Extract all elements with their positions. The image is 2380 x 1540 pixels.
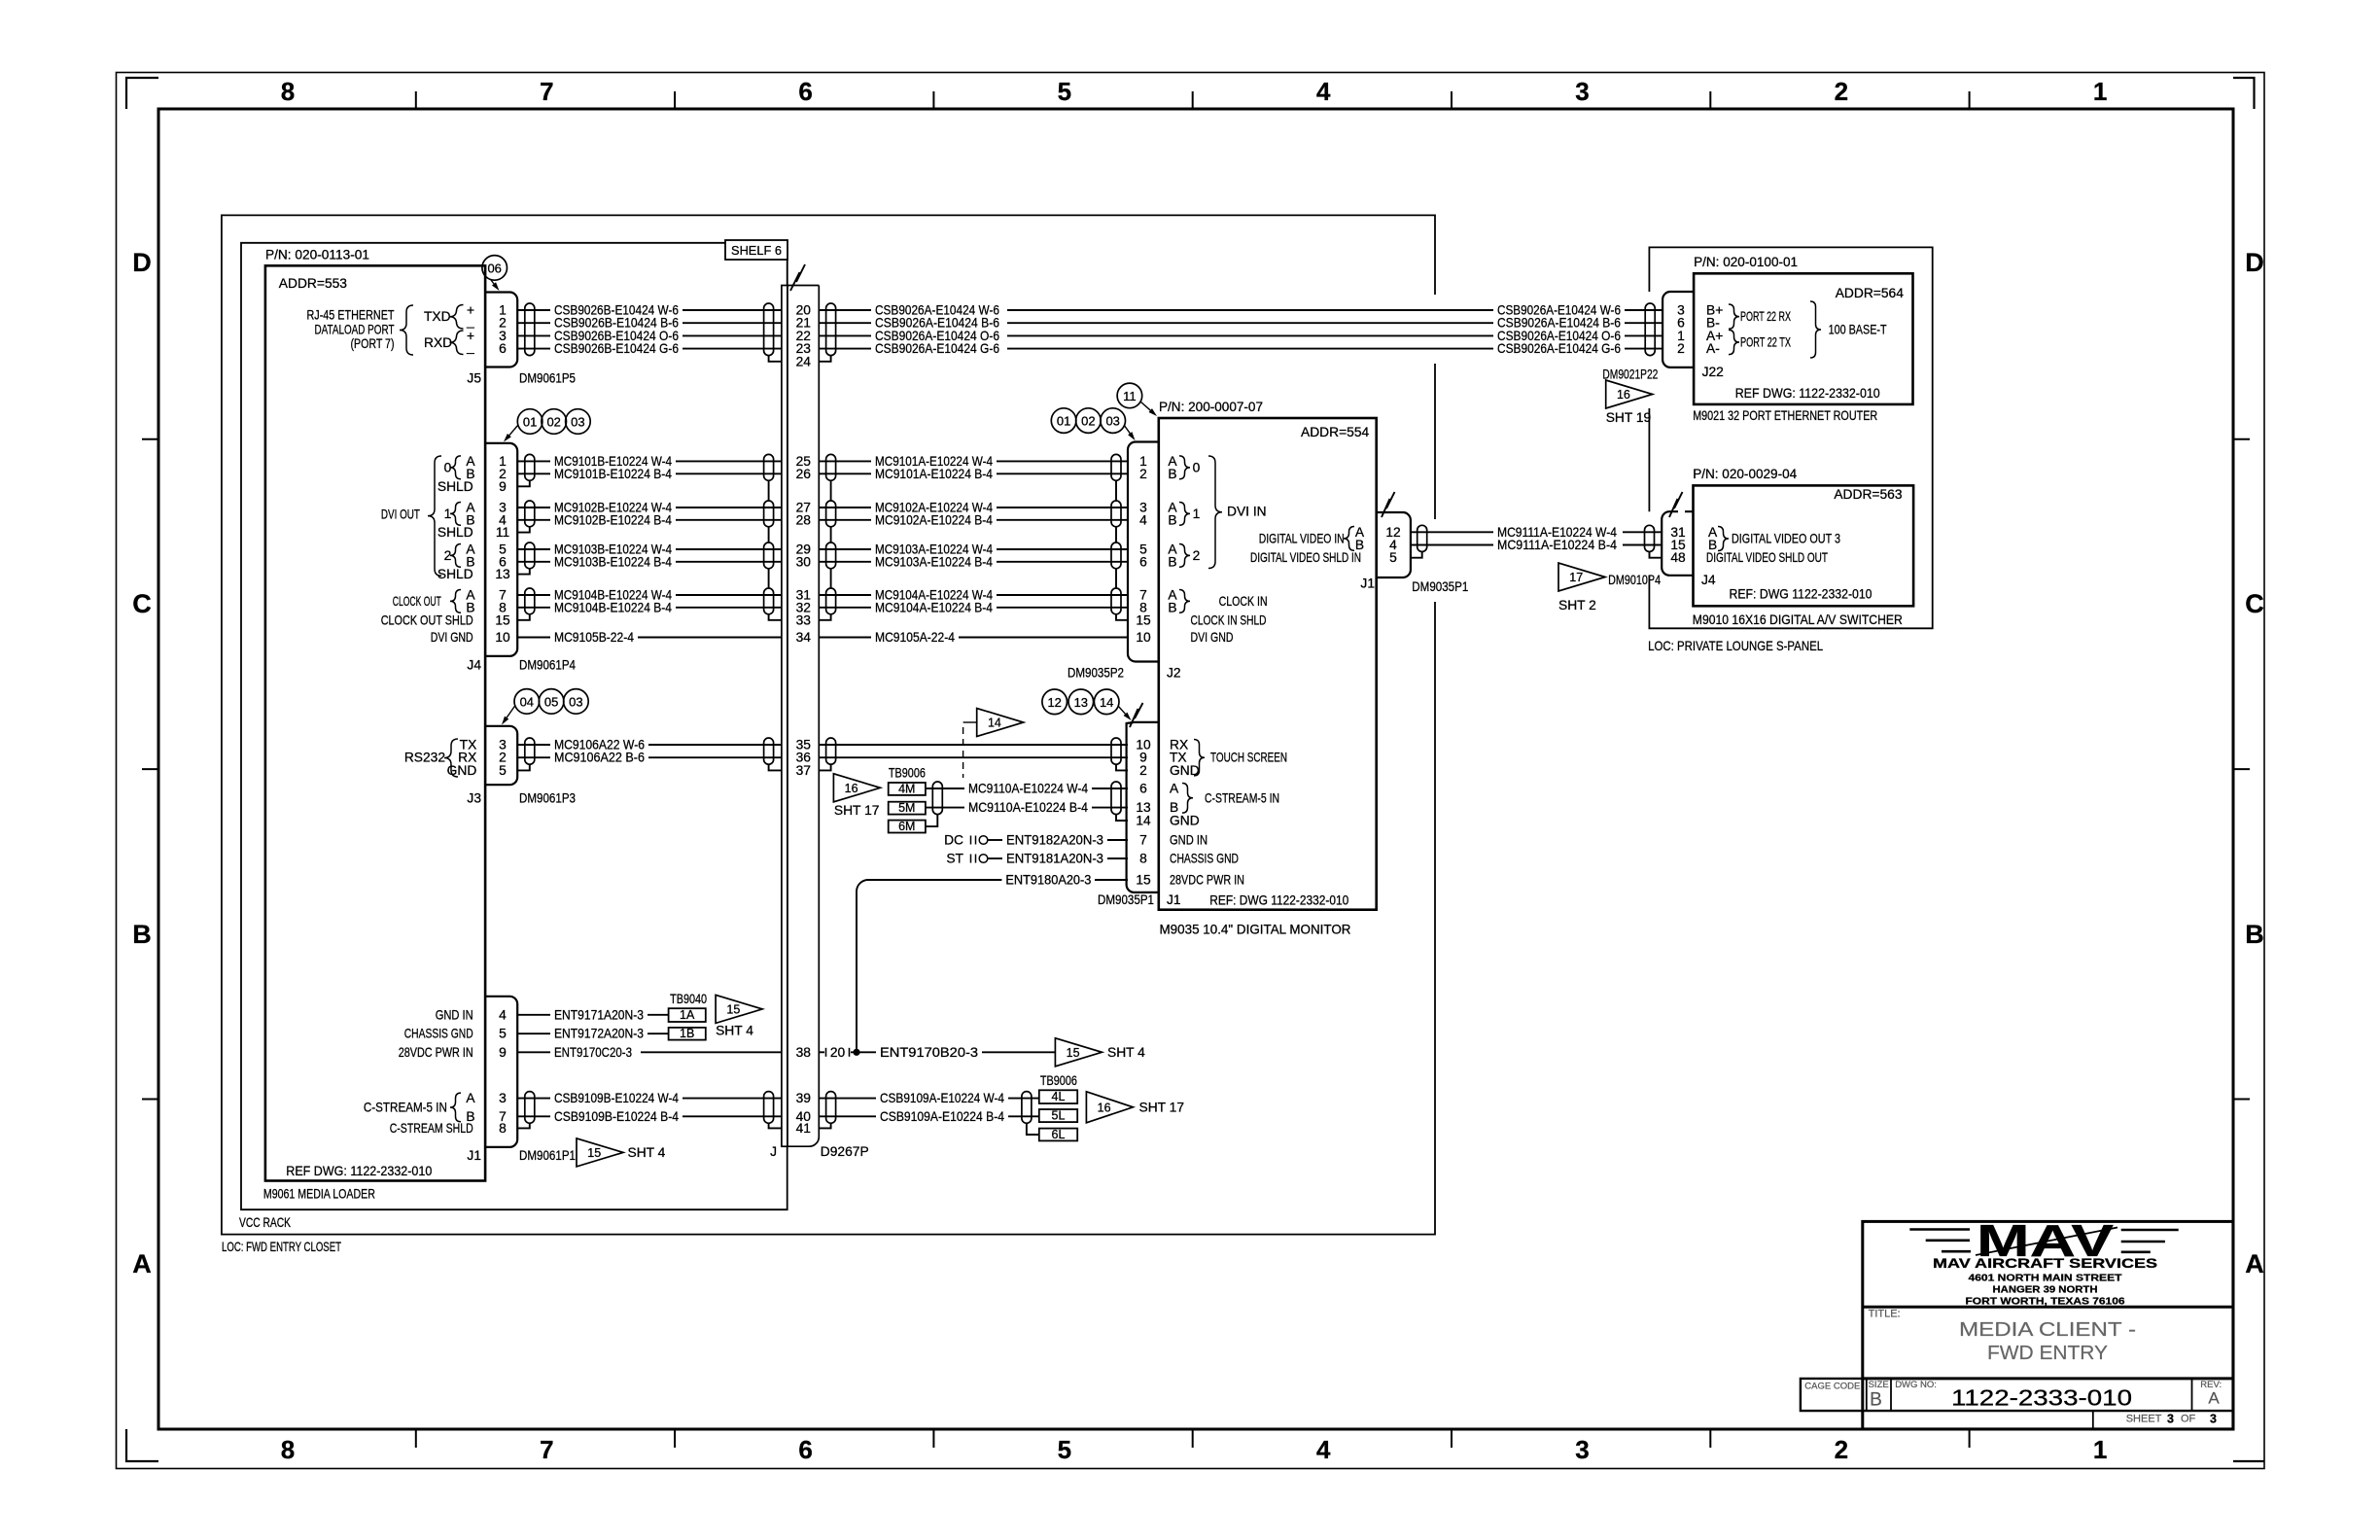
- wire MC9103B-E10224 B-4: [517, 561, 550, 563]
- svg-text:MC9101B-E10224 B-4: MC9101B-E10224 B-4: [554, 467, 672, 481]
- frame corner mark top-left: [126, 78, 158, 109]
- outer box LOC PRIVATE LOUNGE S-PANEL: [1649, 247, 1932, 628]
- svg-text:RXD: RXD: [424, 335, 452, 350]
- shield hook CSB9109A right side: [819, 1123, 830, 1128]
- svg-text:B: B: [1168, 512, 1176, 527]
- svg-text:17: 17: [1569, 571, 1583, 584]
- twisted-pair symbol at monitor: [1111, 542, 1121, 569]
- svg-text:7: 7: [1139, 833, 1147, 848]
- svg-text:4601 NORTH MAIN STREET: 4601 NORTH MAIN STREET: [1969, 1273, 2122, 1283]
- router M9021 box: [1694, 273, 1912, 404]
- svg-text:REF: DWG 1122-2332-010: REF: DWG 1122-2332-010: [1209, 893, 1348, 908]
- svg-text:15: 15: [726, 1002, 740, 1016]
- svg-text:SHT 17: SHT 17: [834, 803, 880, 818]
- svg-text:5: 5: [1389, 550, 1397, 565]
- svg-text:CAGE CODE:: CAGE CODE:: [1804, 1381, 1863, 1391]
- svg-text:LOC: FWD ENTRY CLOSET: LOC: FWD ENTRY CLOSET: [222, 1240, 341, 1254]
- title block cage code row box: [1801, 1379, 2233, 1411]
- connector J22 bump on router: [1662, 292, 1694, 367]
- svg-text:DVI GND: DVI GND: [431, 630, 473, 645]
- svg-text:15: 15: [587, 1146, 601, 1160]
- svg-text:3: 3: [1575, 77, 1589, 106]
- svg-text:MC9110A-E10224 B-4: MC9110A-E10224 B-4: [968, 800, 1088, 815]
- svg-text:ENT9170B20-3: ENT9170B20-3: [880, 1045, 978, 1060]
- svg-text:6: 6: [1139, 554, 1147, 569]
- svg-text:ENT9182A20N-3: ENT9182A20N-3: [1006, 833, 1103, 848]
- svg-text:MC9105B-22-4: MC9105B-22-4: [554, 630, 634, 645]
- connector J3 bump on M9061: [485, 726, 517, 785]
- wire MC9104B-E10224 W-4: [517, 594, 550, 596]
- frame zone ticks top: [415, 91, 417, 109]
- svg-text:MC9103A-E10224 B-4: MC9103A-E10224 B-4: [875, 554, 993, 569]
- svg-text:MC9105A-22-4: MC9105A-22-4: [875, 630, 955, 645]
- media loader M9061 box: [265, 265, 485, 1180]
- svg-text:8: 8: [281, 77, 295, 106]
- svg-text:SHLD: SHLD: [437, 479, 473, 494]
- leader balloons to J1 monitor: [1118, 706, 1125, 714]
- wire MC9102A-E10224 B-4 shelf to monitor: [819, 519, 871, 521]
- shield hook RS232 to pin 37: [769, 764, 782, 770]
- terminal block 4L: [1039, 1090, 1077, 1103]
- connector J1 video bump right of monitor: [1377, 512, 1411, 577]
- svg-text:2: 2: [1835, 77, 1848, 106]
- svg-text:9: 9: [499, 1045, 507, 1060]
- leader balloon 06 to J5: [491, 280, 494, 284]
- svg-text:GND IN: GND IN: [1170, 833, 1207, 848]
- svg-text:ENT9181A20N-3: ENT9181A20N-3: [1006, 852, 1103, 866]
- svg-text:DM9035P1: DM9035P1: [1412, 579, 1468, 594]
- svg-text:5: 5: [1058, 77, 1071, 106]
- flag triangle 17 DM9010P4: [1558, 563, 1605, 591]
- wire MC9106A22 W-6: [517, 744, 550, 746]
- wire MC9104A-E10224 W-4 shelf to monitor: [819, 594, 871, 596]
- svg-text:P/N: 020-0029-04: P/N: 020-0029-04: [1693, 467, 1797, 481]
- svg-text:14: 14: [1136, 814, 1151, 828]
- svg-text:6: 6: [798, 1435, 812, 1464]
- svg-text:SHLD: SHLD: [437, 525, 473, 540]
- svg-text:2: 2: [1677, 341, 1685, 356]
- svg-text:3: 3: [2210, 1413, 2217, 1426]
- flag triangle 15 SHT 4 at DM9061P1: [577, 1138, 623, 1167]
- svg-text:M9021 32 PORT ETHERNET ROU: M9021 32 PORT ETHERNET ROUTER: [1693, 408, 1877, 423]
- twisted-pair symbol at router J22: [1645, 303, 1655, 356]
- svg-text:3: 3: [2167, 1413, 2174, 1426]
- svg-text:4L: 4L: [1052, 1090, 1066, 1103]
- svg-text:CLOCK OUT: CLOCK OUT: [393, 594, 441, 609]
- svg-text:LOC: PRIVATE LOUNGE S-PANEL: LOC: PRIVATE LOUNGE S-PANEL: [1648, 639, 1823, 653]
- twisted-pair symbol at monitor: [1111, 501, 1121, 527]
- svg-text:15: 15: [1067, 1046, 1080, 1060]
- svg-text:SHT 4: SHT 4: [716, 1023, 753, 1037]
- svg-text:16: 16: [1617, 388, 1630, 402]
- brace DVI OUT group: [428, 456, 441, 576]
- svg-text:30: 30: [796, 554, 812, 569]
- wire MC9101A-E10224 W-4 shelf to monitor: [819, 460, 871, 462]
- svg-text:4M: 4M: [898, 783, 915, 796]
- brace PORT 22 RX: [1729, 304, 1739, 329]
- svg-text:A: A: [1170, 782, 1179, 796]
- svg-text:DC: DC: [944, 833, 963, 848]
- svg-text:SHT 19: SHT 19: [1606, 410, 1652, 425]
- wire CSB9026B-E10424 O-6 J5 pin to shelf: [517, 334, 550, 336]
- svg-text:39: 39: [796, 1091, 812, 1105]
- svg-text:CHASSIS GND: CHASSIS GND: [1170, 852, 1239, 866]
- svg-text:DVI IN: DVI IN: [1227, 505, 1267, 519]
- svg-text:C: C: [132, 589, 152, 618]
- svg-text:SHT 4: SHT 4: [628, 1145, 666, 1160]
- svg-text:DVI GND: DVI GND: [1191, 630, 1234, 645]
- shelf label box SHELF 6: [725, 240, 787, 260]
- wire MC9104B-E10224 B-4: [517, 607, 550, 609]
- svg-text:8: 8: [281, 1435, 295, 1464]
- svg-text:C-STREAM-5 IN: C-STREAM-5 IN: [1205, 790, 1279, 805]
- svg-text:J4: J4: [1701, 573, 1716, 587]
- svg-text:DIGITAL VIDEO SHLD OUT: DIGITAL VIDEO SHLD OUT: [1706, 550, 1828, 565]
- brace 100 BASE-T: [1810, 301, 1821, 358]
- svg-text:02: 02: [546, 415, 560, 430]
- svg-text:MAV AIRCRAFT SERVICES: MAV AIRCRAFT SERVICES: [1933, 1256, 2157, 1271]
- connector column J narrow bar: [782, 286, 787, 1147]
- wire MC9102A-E10224 W-4 shelf to monitor: [819, 507, 871, 508]
- twisted-pair symbol at TB9006: [932, 782, 942, 815]
- svg-text:C-STREAM-5 IN: C-STREAM-5 IN: [364, 1100, 447, 1114]
- balloons 12 13 14 at monitor J1: [1042, 689, 1067, 715]
- svg-text:M9061 MEDIA LOADER: M9061 MEDIA LOADER: [263, 1187, 375, 1202]
- svg-text:GND: GND: [1170, 814, 1200, 828]
- twisted-pair symbol MC9111A at monitor: [1417, 525, 1427, 551]
- break symbol at video bump: [1382, 492, 1395, 517]
- twisted-pair symbol left of bar C-STREAM: [764, 1092, 774, 1124]
- svg-text:SHEET: SHEET: [2126, 1414, 2162, 1425]
- leader balloons to J2: [1124, 425, 1130, 434]
- wire MC9105B-22-4 DVI GND: [517, 637, 550, 639]
- svg-text:D: D: [132, 248, 152, 277]
- svg-text:4: 4: [1139, 512, 1147, 527]
- wire CSB9109B-E10224 W-4: [517, 1098, 550, 1100]
- svg-text:CSB9109A-E10224 B-4: CSB9109A-E10224 B-4: [880, 1109, 1004, 1124]
- wire MC9101A-E10224 B-4 shelf to monitor: [819, 472, 871, 474]
- shield stub RS232 to pin 5: [517, 764, 530, 770]
- twisted-pair symbol DVI pair: [525, 542, 535, 569]
- svg-text:04: 04: [520, 694, 534, 709]
- svg-text:SHELF 6: SHELF 6: [731, 243, 782, 258]
- svg-text:MC9103B-E10224 B-4: MC9103B-E10224 B-4: [554, 554, 672, 569]
- svg-text:CSB9026A-E10424 G-6: CSB9026A-E10424 G-6: [1497, 341, 1621, 356]
- svg-text:7: 7: [540, 1435, 553, 1464]
- svg-text:MC9102B-E10224 B-4: MC9102B-E10224 B-4: [554, 512, 672, 527]
- svg-text:C: C: [2245, 589, 2264, 618]
- twisted-pair symbol left of bar CSB9026B: [764, 303, 774, 356]
- shield hook CSB9026B to pin 24: [769, 356, 782, 362]
- svg-text:20: 20: [830, 1045, 846, 1060]
- svg-text:8: 8: [499, 1121, 507, 1136]
- svg-text:26: 26: [796, 467, 812, 481]
- inline connector symbol DC: [970, 836, 972, 845]
- svg-text:D: D: [2245, 248, 2264, 277]
- svg-text:5: 5: [1058, 1435, 1071, 1464]
- svg-text:TB9040: TB9040: [670, 992, 707, 1006]
- svg-text:CLOCK IN SHLD: CLOCK IN SHLD: [1191, 612, 1267, 627]
- svg-text:8: 8: [1139, 852, 1147, 866]
- wire MC9110A-E10224 B-4: [926, 807, 964, 809]
- svg-text:B: B: [2245, 920, 2264, 949]
- shield stub to M9061 pin: [517, 569, 530, 575]
- svg-text:01: 01: [523, 415, 537, 430]
- connector J1 bump on monitor: [1127, 722, 1159, 892]
- chained shield line at monitor to pin 15: [1116, 480, 1128, 620]
- svg-text:ENT9170C20-3: ENT9170C20-3: [554, 1045, 632, 1060]
- svg-text:03: 03: [1105, 414, 1119, 429]
- svg-text:J22: J22: [1702, 365, 1724, 379]
- title block size cell divider: [1866, 1379, 1868, 1411]
- svg-text:A: A: [132, 1249, 152, 1278]
- wire MC9101B-E10224 B-4: [517, 472, 550, 474]
- twisted-pair symbol at monitor: [1111, 454, 1121, 480]
- terminal block 5L: [1039, 1109, 1077, 1122]
- svg-text:28: 28: [796, 512, 812, 527]
- svg-text:2: 2: [1139, 763, 1147, 778]
- svg-text:DM9061P1: DM9061P1: [519, 1148, 576, 1163]
- svg-text:P/N: 020-0100-01: P/N: 020-0100-01: [1694, 255, 1798, 269]
- svg-text:5: 5: [499, 763, 507, 778]
- svg-text:J2: J2: [1167, 666, 1181, 681]
- svg-text:10: 10: [495, 630, 510, 645]
- twisted-pair symbol right of bar CSB9109A: [826, 1092, 836, 1124]
- svg-text:MC9106A22 B-6: MC9106A22 B-6: [554, 751, 645, 765]
- svg-text:13: 13: [1074, 695, 1088, 710]
- svg-text:5M: 5M: [898, 801, 915, 815]
- shield stub to M9061 pin: [517, 480, 530, 486]
- svg-text:DM9061P5: DM9061P5: [519, 371, 576, 386]
- svg-text:J1: J1: [467, 1148, 481, 1163]
- wire MC9105A-22-4 shelf to monitor DVI GND: [819, 637, 871, 639]
- shield wire 6M to twisted pair: [926, 815, 937, 827]
- wire ENT9181A20N-3 to monitor pin 8: [988, 857, 1002, 859]
- svg-text:DM9061P4: DM9061P4: [519, 658, 576, 673]
- svg-text:03: 03: [571, 415, 584, 430]
- svg-text:C-STREAM SHLD: C-STREAM SHLD: [390, 1121, 473, 1136]
- svg-text:ENT9171A20N-3: ENT9171A20N-3: [554, 1007, 644, 1022]
- svg-text:B: B: [132, 920, 152, 949]
- svg-text:DM9035P2: DM9035P2: [1067, 666, 1124, 681]
- svg-text:A: A: [2208, 1389, 2220, 1408]
- svg-text:J1: J1: [1167, 892, 1181, 907]
- svg-text:02: 02: [1081, 414, 1095, 429]
- leader balloons to J3: [507, 706, 515, 718]
- svg-text:ENT9180A20-3: ENT9180A20-3: [1005, 873, 1091, 888]
- svg-text:38: 38: [796, 1045, 812, 1060]
- svg-text:10: 10: [1136, 630, 1151, 645]
- outer box LOC FWD ENTRY CLOSET: [222, 215, 1435, 1234]
- wire MC9104A-E10224 B-4 shelf to monitor: [819, 607, 871, 609]
- wire ENT9182A20N-3 to monitor pin 7: [988, 839, 1002, 841]
- shield hook MC9111A at monitor: [1411, 552, 1422, 558]
- brace RS232: [444, 739, 458, 777]
- svg-text:7: 7: [540, 77, 553, 106]
- svg-text:TITLE:: TITLE:: [1869, 1308, 1901, 1319]
- connector J2 bump on monitor: [1128, 442, 1159, 662]
- frame inner border: [158, 109, 2233, 1429]
- switcher M9010 box: [1694, 485, 1914, 606]
- svg-text:CLOCK OUT SHLD: CLOCK OUT SHLD: [381, 612, 473, 627]
- wire MC9110A-E10224 W-4: [926, 787, 964, 789]
- svg-text:SHT 2: SHT 2: [1558, 598, 1596, 612]
- svg-text:6M: 6M: [898, 820, 915, 833]
- svg-text:MC9102A-E10224 B-4: MC9102A-E10224 B-4: [875, 512, 993, 527]
- svg-text:ENT9172A20N-3: ENT9172A20N-3: [554, 1027, 644, 1041]
- balloons 01 02 03 at monitor J2: [1051, 408, 1076, 434]
- svg-text:16: 16: [845, 782, 858, 795]
- svg-text:_: _: [466, 339, 474, 354]
- svg-text:TB9006: TB9006: [889, 766, 926, 781]
- svg-text:DATALOAD PORT: DATALOAD PORT: [315, 322, 395, 336]
- twisted-pair symbol at monitor: [1111, 588, 1121, 614]
- wire CSB9026B-E10424 G-6 J5 pin to shelf: [517, 348, 550, 350]
- wire ENT9170C20-3 28VDC to shelf 38: [517, 1051, 550, 1053]
- balloons 04 05 03 at J3: [514, 689, 540, 715]
- svg-text:4: 4: [499, 1007, 507, 1022]
- wire MC9103A-E10224 W-4 shelf to monitor: [819, 548, 871, 550]
- connector J4 bump on switcher: [1662, 511, 1693, 576]
- svg-text:MC9110A-E10224 W-4: MC9110A-E10224 W-4: [968, 782, 1088, 796]
- title block dwg cell divider: [1890, 1379, 1892, 1411]
- title block outer box: [1863, 1221, 2233, 1429]
- wire MC9102B-E10224 W-4: [517, 507, 550, 508]
- chained twisted-pair symbols left of bar DVI pairs: [764, 454, 774, 480]
- svg-text:DIGITAL VIDEO IN: DIGITAL VIDEO IN: [1259, 531, 1345, 545]
- svg-text:14: 14: [1100, 695, 1113, 710]
- wire MC9106A22 B-6: [517, 756, 550, 758]
- svg-text:06: 06: [487, 261, 501, 275]
- frame corner mark bottom-left: [126, 1429, 158, 1461]
- svg-text:M9010 16X16 DIGITAL A/V SW: M9010 16X16 DIGITAL A/V SWITCHER: [1693, 612, 1903, 627]
- svg-text:PORT 22 RX: PORT 22 RX: [1740, 309, 1791, 324]
- svg-text:B: B: [1168, 467, 1176, 481]
- svg-text:0: 0: [1193, 460, 1201, 474]
- connector J5 bump on M9061: [485, 293, 517, 367]
- svg-text:MEDIA CLIENT -: MEDIA CLIENT -: [1959, 1319, 2136, 1341]
- svg-text:2: 2: [1139, 467, 1147, 481]
- svg-text:24: 24: [796, 354, 812, 368]
- svg-text:SHT 4: SHT 4: [1107, 1045, 1145, 1060]
- svg-text:41: 41: [796, 1121, 811, 1136]
- terminal block 6M: [889, 821, 926, 833]
- flag triangle 16 SHT 19: [1606, 380, 1653, 408]
- svg-text:J4: J4: [467, 658, 481, 673]
- svg-text:P/N: 200-0007-07: P/N: 200-0007-07: [1159, 400, 1263, 414]
- svg-text:CLOCK IN: CLOCK IN: [1219, 594, 1268, 609]
- title block sheet cell divider: [2092, 1411, 2094, 1429]
- break symbol at switcher bump: [1669, 492, 1683, 517]
- chained twisted-pair symbols right of bar DVI pairs: [826, 454, 836, 480]
- svg-text:4: 4: [1316, 77, 1331, 106]
- svg-text:OF: OF: [2181, 1414, 2196, 1425]
- svg-text:ADDR=554: ADDR=554: [1301, 425, 1369, 439]
- wire touch screen RX shelf to monitor: [819, 744, 1128, 746]
- frame zone ticks right: [2233, 438, 2250, 440]
- wire CSB9026B-E10424 B-6 J5 pin to shelf: [517, 322, 550, 324]
- twisted-pair symbol DVI pair: [525, 588, 535, 614]
- wire ENT9172A20N-3 to TB9040 1B: [517, 1032, 550, 1034]
- connector column D9267P wide bar: [787, 286, 819, 1147]
- svg-text:J1: J1: [1360, 577, 1375, 591]
- svg-text:A: A: [2245, 1249, 2264, 1278]
- svg-text:34: 34: [796, 630, 812, 645]
- svg-text:DM9010P4: DM9010P4: [1608, 573, 1661, 587]
- svg-text:13: 13: [495, 567, 510, 581]
- shield hook touch screen right side: [819, 764, 830, 770]
- svg-text:3: 3: [499, 1091, 507, 1105]
- MAV logo swoosh: [1976, 1228, 2117, 1256]
- svg-text:28VDC PWR IN: 28VDC PWR IN: [399, 1045, 473, 1060]
- svg-text:RS232: RS232: [404, 751, 445, 765]
- svg-text:PORT 22 TX: PORT 22 TX: [1740, 335, 1791, 350]
- bent wire ENT9180A20-3 down to junction: [857, 880, 1001, 1052]
- brace RJ-45 group: [400, 305, 413, 355]
- svg-text:A: A: [466, 1091, 475, 1105]
- svg-text:15: 15: [1136, 873, 1151, 888]
- svg-text:33: 33: [796, 612, 812, 627]
- svg-text:CHASSIS GND: CHASSIS GND: [404, 1027, 473, 1041]
- junction dot 28VDC: [853, 1049, 859, 1056]
- svg-text:14: 14: [988, 717, 1001, 730]
- svg-text:A-: A-: [1706, 341, 1720, 356]
- shield wire to 6L: [1027, 1123, 1039, 1135]
- svg-text:REF: DWG 1122-2332-010: REF: DWG 1122-2332-010: [1730, 587, 1872, 602]
- connector J4 bump on M9061: [485, 443, 517, 656]
- svg-text:MC9101A-E10224 B-4: MC9101A-E10224 B-4: [875, 467, 993, 481]
- wire CSB9109B-E10224 B-4: [517, 1115, 550, 1117]
- svg-text:4: 4: [1316, 1435, 1331, 1464]
- wire MC9111A-E10224 B-4: [1411, 544, 1493, 546]
- flag triangle 16 SHT 17 upper: [833, 774, 880, 802]
- svg-text:ST: ST: [946, 852, 963, 866]
- brace TXD: [450, 305, 464, 330]
- svg-text:MC9111A-E10224 B-4: MC9111A-E10224 B-4: [1497, 538, 1617, 552]
- twisted-pair symbol C-STREAM: [525, 1092, 535, 1124]
- title block rev cell divider: [2191, 1379, 2193, 1411]
- twisted-pair symbol right of bar CSB9026A: [826, 303, 836, 356]
- svg-text:48: 48: [1670, 550, 1686, 565]
- svg-text:J: J: [770, 1144, 777, 1159]
- svg-text:5: 5: [499, 1027, 507, 1041]
- line SHELF 6 box to connector column: [787, 260, 788, 286]
- shield stub to M9061 pin: [517, 527, 530, 533]
- wire CSB9026A-E10424 W-6 shelf to router: [819, 309, 871, 311]
- svg-text:2: 2: [1835, 1435, 1848, 1464]
- svg-text:05: 05: [544, 694, 558, 709]
- svg-text:11: 11: [1123, 389, 1137, 403]
- brace PORT 22 TX: [1729, 330, 1739, 354]
- twisted-pair symbol left of bar RS232: [764, 738, 774, 764]
- svg-text:12: 12: [1047, 695, 1061, 710]
- svg-text:FORT WORTH, TEXAS 76106: FORT WORTH, TEXAS 76106: [1966, 1296, 2126, 1307]
- svg-text:VCC RACK: VCC RACK: [239, 1215, 292, 1230]
- twisted-pair symbol touch at monitor: [1111, 738, 1121, 764]
- twisted-pair symbol MC9110A at monitor: [1111, 782, 1121, 815]
- wire CSB9026A-E10424 B-6 shelf to router: [819, 322, 871, 324]
- svg-text:REF DWG: 1122-2332-010: REF DWG: 1122-2332-010: [286, 1164, 432, 1178]
- svg-text:1: 1: [2093, 1435, 2107, 1464]
- svg-text:01: 01: [1057, 414, 1070, 429]
- svg-text:DIGITAL VIDEO SHLD IN: DIGITAL VIDEO SHLD IN: [1250, 550, 1361, 565]
- break symbol at top of shelf column: [790, 264, 805, 291]
- svg-text:100 BASE-T: 100 BASE-T: [1829, 322, 1887, 336]
- svg-text:1: 1: [2093, 77, 2107, 106]
- svg-text:GND IN: GND IN: [436, 1007, 473, 1022]
- inline connector symbol ST: [970, 855, 972, 863]
- svg-text:MC9104B-E10224 B-4: MC9104B-E10224 B-4: [554, 600, 672, 614]
